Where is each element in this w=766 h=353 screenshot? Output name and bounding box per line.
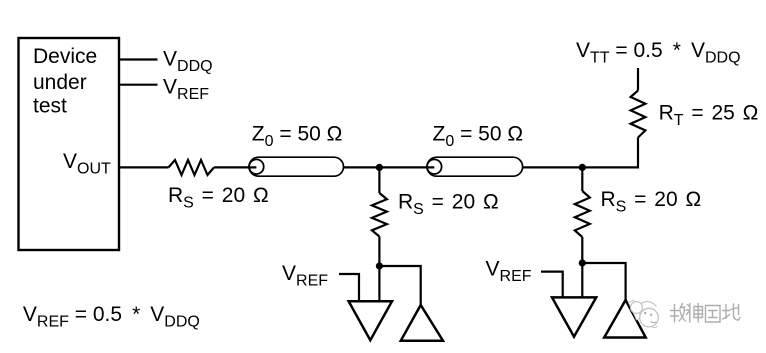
wire RT to VTT: [637, 68, 639, 91]
resistor RS1: [169, 160, 215, 175]
wire node A to TL2: [379, 166, 434, 168]
resistor RS2: [372, 193, 387, 237]
wire VREF stub: [119, 84, 158, 86]
svg-text:Device: Device: [33, 45, 97, 68]
wire node B down to RS3: [581, 167, 583, 191]
probe triangle T4 (up): [604, 300, 646, 338]
device under test box U1: [19, 38, 120, 250]
probe triangle T2 (up): [401, 305, 443, 341]
wire VOUT to RS1: [119, 166, 169, 168]
transmission line TL1: [249, 157, 344, 176]
wire VREF L to probe T1: [339, 274, 359, 301]
wire TL2 to node B: [523, 166, 583, 168]
watermark text (stylized CJK strokes): [671, 304, 741, 323]
wire node D to probe T4: [582, 263, 625, 300]
node D junction: [579, 259, 586, 266]
node C junction: [376, 262, 383, 269]
wire VREF L to probe T3: [541, 272, 563, 298]
wire RS2 to node C: [378, 237, 380, 267]
wire RS1 to TL1: [214, 166, 256, 168]
resistor RS3: [575, 191, 590, 237]
svg-text:test: test: [33, 94, 67, 117]
resistor RT: [631, 91, 646, 138]
wire TL1 to node A: [344, 166, 380, 168]
wire RS3 to node D: [581, 237, 583, 263]
watermark logo: [629, 300, 659, 327]
node B junction: [579, 164, 586, 171]
node A junction: [376, 164, 383, 171]
transmission line TL2: [427, 157, 523, 176]
probe triangle T1 (down): [349, 301, 392, 340]
wire node B to RT corner: [582, 138, 638, 168]
probe triangle T3 (down): [552, 297, 596, 336]
device box label: [33, 45, 97, 118]
svg-text:under: under: [33, 71, 87, 94]
wire node C to probe T2: [379, 266, 420, 305]
wire node D to probe T3: [581, 263, 583, 297]
wire node A down to RS2: [378, 167, 380, 193]
wire node C to probe T1: [378, 266, 380, 301]
wire VDDQ stub: [119, 58, 158, 60]
